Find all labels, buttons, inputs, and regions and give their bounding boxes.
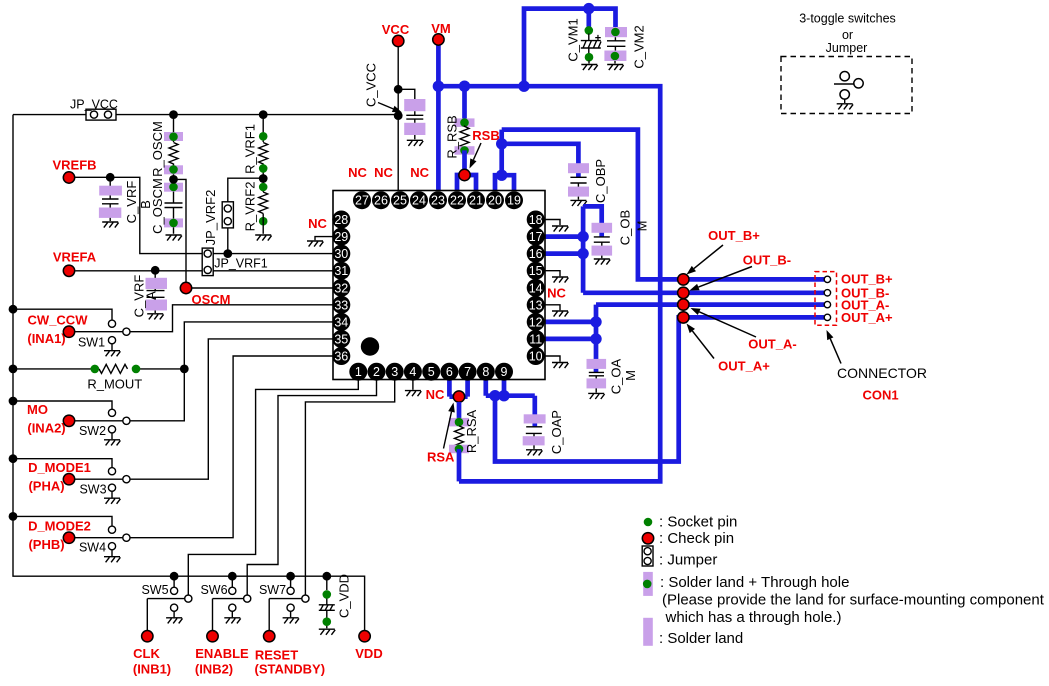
label connector OUT_B- xyxy=(841,285,889,300)
svg-text:26: 26 xyxy=(374,194,388,208)
svg-text:(STANDBY): (STANDBY) xyxy=(255,662,326,677)
label OUT_B- callout xyxy=(690,253,792,291)
svg-text:: Solder land: : Solder land xyxy=(659,630,743,647)
svg-text:CON1: CON1 xyxy=(862,388,898,403)
ground pin 18 xyxy=(544,220,568,232)
svg-text:28: 28 xyxy=(334,213,348,227)
label OUT_B+ callout xyxy=(687,228,761,275)
jumper JP_VRF1 xyxy=(202,248,268,276)
capacitor C_OSCM xyxy=(150,178,183,240)
ground pin 13 xyxy=(544,305,568,317)
label OUT_A- callout xyxy=(691,308,797,352)
resistor R_VRF1 xyxy=(243,115,268,192)
jumper JP_VRF2 xyxy=(203,178,263,253)
node VM top junction xyxy=(583,3,594,14)
wire SW2 to pin 34 xyxy=(130,322,333,421)
node R_OSCM/C_OSCM junction xyxy=(169,175,178,184)
capacitor C_VRFA xyxy=(132,270,168,319)
ground pin 4 xyxy=(405,380,421,396)
capacitor C_OAP xyxy=(523,410,564,455)
capacitor C_OAM xyxy=(587,358,639,399)
op-amp U1 IC body xyxy=(333,191,545,380)
connector CON1 outline xyxy=(815,272,837,326)
check pin VREFB xyxy=(52,158,96,184)
label connector OUT_B+ xyxy=(841,272,893,287)
capacitor C_VM2 xyxy=(604,25,646,70)
switch SW1 xyxy=(9,305,130,357)
check pin VDD xyxy=(355,631,382,662)
svg-text:SW4: SW4 xyxy=(79,541,106,555)
check pin OSCM xyxy=(174,179,333,307)
svg-text:VDD: VDD xyxy=(355,646,382,661)
svg-text:21: 21 xyxy=(469,194,483,208)
svg-text:VREFB: VREFB xyxy=(52,158,96,173)
wire OUT_A+ pins 8,9 xyxy=(486,317,824,461)
svg-text:5: 5 xyxy=(428,365,435,379)
svg-text:OUT_A+: OUT_A+ xyxy=(718,359,770,374)
legend note line 2 xyxy=(665,609,842,626)
svg-text:D_MODE2: D_MODE2 xyxy=(28,519,91,534)
check pin D_MODE2 (PHB) xyxy=(28,519,91,553)
connector CON1 pins xyxy=(824,276,830,320)
svg-text:B: B xyxy=(138,200,153,209)
svg-text:M: M xyxy=(634,221,649,232)
check pin OUT_A- xyxy=(678,299,689,310)
svg-text:+: + xyxy=(595,33,601,45)
svg-text:22: 22 xyxy=(450,194,464,208)
svg-text:16: 16 xyxy=(529,247,543,261)
resistor R_OSCM xyxy=(150,115,183,180)
svg-text:(PHB): (PHB) xyxy=(28,537,64,552)
svg-text:11: 11 xyxy=(529,332,542,346)
svg-text:C_OAP: C_OAP xyxy=(549,410,564,454)
svg-text:D_MODE1: D_MODE1 xyxy=(28,460,91,475)
svg-text:29: 29 xyxy=(334,230,348,244)
svg-text:C_VRF: C_VRF xyxy=(124,181,139,224)
svg-text:JP_VRF1: JP_VRF1 xyxy=(214,257,268,271)
check pin CW_CCW (INA1) xyxy=(27,313,88,347)
label RSA xyxy=(427,403,455,465)
wire RSA pins 6,7 xyxy=(449,380,467,396)
wire VREFB to pin 30 xyxy=(75,177,333,253)
check pin OUT_B- xyxy=(678,287,689,298)
wire pin 1 to SW5 xyxy=(188,380,358,595)
svg-text:SW3: SW3 xyxy=(79,483,106,497)
resistor R_VRF2 xyxy=(243,182,272,241)
node VREFB junctions xyxy=(106,173,232,258)
svg-text:3: 3 xyxy=(391,365,398,379)
wire OUT_B- pins 16,17 xyxy=(544,206,601,292)
svg-text:30: 30 xyxy=(334,247,348,261)
svg-text:C_OBP: C_OBP xyxy=(593,159,608,203)
legend check pin xyxy=(642,530,734,547)
node OUT_A- junctions xyxy=(590,316,601,344)
node VREFA junction xyxy=(151,266,160,275)
capacitor C_VRFB xyxy=(99,177,153,227)
svg-text:15: 15 xyxy=(529,264,543,278)
ground pin 15 xyxy=(544,271,568,283)
svg-text:(PHA): (PHA) xyxy=(28,479,64,494)
svg-text:M: M xyxy=(623,370,638,381)
check pin RSA pin xyxy=(453,391,464,402)
svg-text:: Socket pin: : Socket pin xyxy=(659,514,737,531)
ground pin 29 xyxy=(307,237,333,247)
resistor R_RSB xyxy=(445,86,475,169)
switch SW4 xyxy=(9,512,130,562)
IC pins 1-36 xyxy=(332,191,544,381)
wire OUT_A- to connector xyxy=(596,302,824,307)
svg-text:13: 13 xyxy=(529,298,543,312)
check pin VM dot xyxy=(433,34,444,45)
svg-text:R_RSB: R_RSB xyxy=(445,115,460,158)
svg-text:VCC: VCC xyxy=(382,22,410,37)
svg-text:Jumper: Jumper xyxy=(826,41,868,55)
svg-text:C_VM2: C_VM2 xyxy=(632,25,647,68)
svg-text:1: 1 xyxy=(355,365,362,379)
check pin RSB xyxy=(459,128,500,181)
svg-text:C_OB: C_OB xyxy=(617,210,632,245)
svg-text:NC: NC xyxy=(547,286,566,301)
svg-text:6: 6 xyxy=(446,365,453,379)
svg-text:C_VM1: C_VM1 xyxy=(566,18,581,61)
resistor R_RSA xyxy=(449,402,479,481)
switch SW2 xyxy=(9,397,130,446)
toggle switch symbol xyxy=(834,72,863,110)
svg-text:SW6: SW6 xyxy=(200,583,227,597)
svg-text:32: 32 xyxy=(334,281,348,295)
svg-text:OUT_B+: OUT_B+ xyxy=(708,228,760,243)
svg-text:R_OSCM: R_OSCM xyxy=(150,121,165,177)
check pin D_MODE1 (PHA) xyxy=(28,460,91,494)
svg-text:OUT_B-: OUT_B- xyxy=(743,253,791,268)
wire pin 2 to SW6 xyxy=(247,380,376,595)
label NC pin 28 xyxy=(308,216,327,231)
svg-text:20: 20 xyxy=(488,194,502,208)
jumper JP_VCC xyxy=(70,98,118,121)
svg-text:NC: NC xyxy=(348,165,367,180)
node OUT_B+ junctions xyxy=(496,138,507,181)
wire VM vertical to pin 23 xyxy=(436,45,441,192)
svg-text:SW2: SW2 xyxy=(79,424,106,438)
check pin OUT_B+ xyxy=(678,274,689,285)
svg-text:R_VRF1: R_VRF1 xyxy=(243,124,258,174)
check pin VREFA xyxy=(53,250,97,277)
svg-text:8: 8 xyxy=(482,365,489,379)
svg-text:2: 2 xyxy=(373,365,380,379)
svg-text:: Solder land + Through hole: : Solder land + Through hole xyxy=(660,574,849,591)
capacitor C_OBM xyxy=(592,210,650,265)
svg-text:4: 4 xyxy=(409,365,416,379)
svg-text:RSA: RSA xyxy=(427,449,455,464)
wire VCC to pin 25 xyxy=(397,47,399,192)
svg-text:34: 34 xyxy=(334,315,348,329)
svg-text:12: 12 xyxy=(529,315,543,329)
svg-text:OUT_A+: OUT_A+ xyxy=(841,310,893,325)
svg-text:C_OA: C_OA xyxy=(609,358,624,394)
svg-text:RESET: RESET xyxy=(255,648,298,663)
check pin VCC xyxy=(382,22,410,47)
svg-text:36: 36 xyxy=(334,350,348,364)
svg-text:A: A xyxy=(144,291,159,300)
legend solder land + through hole xyxy=(643,572,850,596)
capacitor C_VM1 xyxy=(566,9,602,71)
svg-text:(Please provide the land for s: (Please provide the land for surface-mou… xyxy=(662,592,1045,609)
label OUT_A+ callout xyxy=(687,324,771,374)
switch SW6 xyxy=(200,572,250,624)
svg-text:R_RSA: R_RSA xyxy=(464,410,479,454)
node OUT_A+ junctions xyxy=(489,390,509,401)
svg-text:(INA1): (INA1) xyxy=(27,331,65,346)
check pin OUT_A+ xyxy=(678,312,689,323)
svg-text:which has a through hole.): which has a through hole.) xyxy=(665,609,842,626)
ground pin 10 xyxy=(544,356,568,368)
svg-text:: Check pin: : Check pin xyxy=(659,530,734,547)
wire SW3 to pin 35 xyxy=(130,339,333,479)
svg-text:NC: NC xyxy=(308,216,327,231)
capacitor C_VDD xyxy=(319,572,352,635)
node VM junctions xyxy=(433,81,530,92)
wire VM bus to RSA loop xyxy=(438,86,660,481)
label CON1 xyxy=(862,388,898,403)
svg-text:R_VRF2: R_VRF2 xyxy=(243,182,258,232)
svg-text:(INB2): (INB2) xyxy=(195,662,233,677)
svg-text:35: 35 xyxy=(334,332,348,346)
svg-text:18: 18 xyxy=(529,213,543,227)
capacitor C_VCC xyxy=(364,63,426,146)
svg-text:SW7: SW7 xyxy=(259,583,286,597)
svg-text:ENABLE: ENABLE xyxy=(195,646,249,661)
svg-text:NC: NC xyxy=(426,387,445,402)
wire SW4 to pin 36 xyxy=(130,356,333,538)
check pin ENABLE (INB2) xyxy=(195,599,249,677)
svg-text:CLK: CLK xyxy=(133,646,160,661)
svg-text:17: 17 xyxy=(529,230,543,244)
svg-text:R_MOUT: R_MOUT xyxy=(87,377,142,392)
wire RSB to pins 21,22 xyxy=(457,175,476,192)
svg-text:(INB1): (INB1) xyxy=(133,662,171,677)
svg-text:23: 23 xyxy=(431,194,445,208)
switch SW3 xyxy=(9,454,130,504)
legend jumper xyxy=(642,546,717,569)
svg-text:RSB: RSB xyxy=(472,128,499,143)
switch SW5 xyxy=(141,572,191,624)
svg-text:31: 31 xyxy=(334,264,348,278)
wire OUT_A- pins 11,12 xyxy=(544,305,596,361)
IC pin-1 orientation mark xyxy=(361,337,379,355)
label NC pin 5 xyxy=(426,387,445,402)
wire VREFA to pin 31 xyxy=(75,270,333,272)
label NC pins 26,27 xyxy=(348,165,393,180)
check pin VM xyxy=(431,21,451,36)
wire C_OBP tap xyxy=(502,144,579,165)
svg-text:: Jumper: : Jumper xyxy=(659,552,717,569)
svg-text:9: 9 xyxy=(501,365,508,379)
svg-text:or: or xyxy=(842,28,853,42)
label NC pin 14 xyxy=(547,286,566,301)
svg-text:27: 27 xyxy=(355,194,369,208)
svg-text:14: 14 xyxy=(529,281,543,295)
svg-text:NC: NC xyxy=(410,165,429,180)
label connector OUT_A+ xyxy=(841,310,893,325)
legend solder land xyxy=(643,618,743,647)
wire OUT_B+ to connector xyxy=(502,130,825,280)
svg-text:C_VCC: C_VCC xyxy=(364,63,379,107)
svg-text:19: 19 xyxy=(507,194,521,208)
svg-text:25: 25 xyxy=(393,194,407,208)
svg-text:24: 24 xyxy=(412,194,426,208)
svg-text:3-toggle switches: 3-toggle switches xyxy=(799,12,896,26)
wire OUT_B+ pins 19,20 xyxy=(495,130,514,192)
check pin MO (INA2) xyxy=(27,402,75,435)
svg-text:10: 10 xyxy=(529,350,543,364)
toggle switch option box xyxy=(781,57,912,114)
svg-text:C_VDD: C_VDD xyxy=(337,574,352,618)
node OUT_B- junctions xyxy=(577,231,588,259)
svg-text:MO: MO xyxy=(27,402,48,417)
legend socket pin xyxy=(644,514,738,531)
capacitor C_OBP xyxy=(568,159,608,206)
wire VCC/VDD top rail and left bus xyxy=(13,115,398,631)
wire pin 3 to SW7 xyxy=(305,380,394,595)
wire OUT_B- to connector xyxy=(583,290,824,295)
wire SW1 to pin 33 xyxy=(130,305,333,332)
switch SW7 xyxy=(259,572,309,624)
resistor R_MOUT xyxy=(9,364,189,391)
label CONNECTOR xyxy=(827,330,927,381)
svg-text:33: 33 xyxy=(334,298,348,312)
svg-text:NC: NC xyxy=(374,165,393,180)
node R_VRF junction xyxy=(259,174,268,183)
label 3-toggle switches or Jumper xyxy=(799,12,896,56)
legend note line 1 xyxy=(662,592,1045,609)
wire VM top loop xyxy=(524,9,616,87)
node VCC junctions xyxy=(394,85,403,120)
label NC pin 24 xyxy=(410,165,429,180)
svg-text:7: 7 xyxy=(464,365,471,379)
node top rail taps xyxy=(169,110,268,119)
svg-text:SW5: SW5 xyxy=(141,583,168,597)
label connector OUT_A- xyxy=(841,297,889,312)
svg-text:CW_CCW: CW_CCW xyxy=(28,313,89,328)
svg-text:SW1: SW1 xyxy=(78,336,105,350)
check pin CLK (INB1) xyxy=(133,599,185,677)
check pin RESET (STANDBY) xyxy=(255,599,326,677)
svg-text:JP_VRF2: JP_VRF2 xyxy=(203,190,218,246)
svg-text:CONNECTOR: CONNECTOR xyxy=(837,365,927,381)
svg-text:VREFA: VREFA xyxy=(53,250,97,265)
svg-text:(INA2): (INA2) xyxy=(27,420,65,435)
svg-text:OUT_A-: OUT_A- xyxy=(748,337,796,352)
